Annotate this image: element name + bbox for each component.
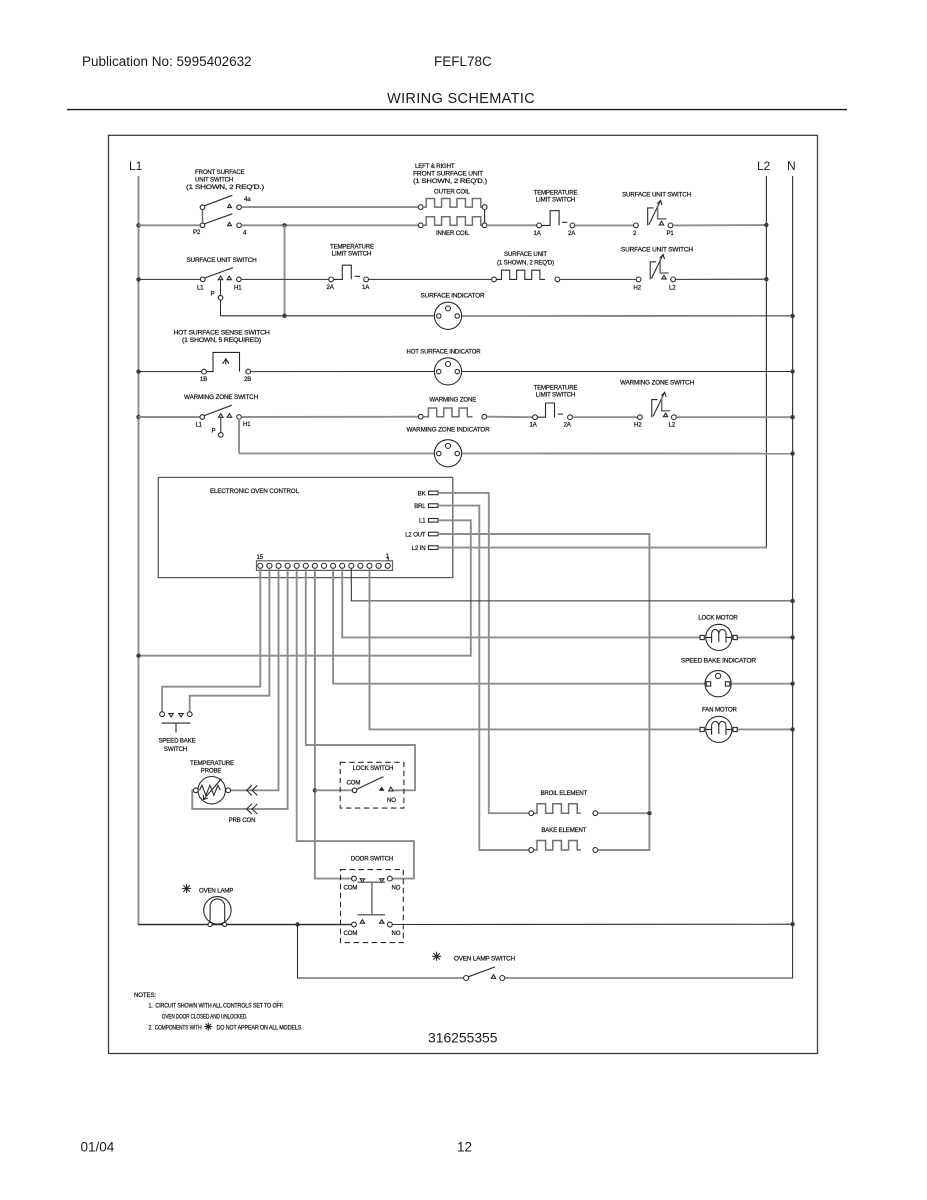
svg-text:TEMPERATURE: TEMPERATURE (330, 243, 374, 250)
svg-text:(1 SHOWN, 2 REQ'D.): (1 SHOWN, 2 REQ'D.) (413, 178, 487, 185)
svg-text:SURFACE UNIT: SURFACE UNIT (504, 251, 547, 258)
svg-text:NOTES:: NOTES: (134, 992, 156, 999)
svg-text:1A: 1A (362, 284, 370, 291)
svg-text:HOT SURFACE INDICATOR: HOT SURFACE INDICATOR (407, 348, 482, 355)
svg-text:L1: L1 (129, 159, 143, 173)
svg-text:L2: L2 (669, 285, 676, 292)
svg-text:OUTER COIL: OUTER COIL (434, 188, 471, 195)
svg-text:SPEED BAKE: SPEED BAKE (158, 738, 195, 745)
svg-text:SURFACE UNIT SWITCH: SURFACE UNIT SWITCH (622, 191, 691, 198)
svg-text:2. COMPONENTS WITH: 2. COMPONENTS WITH (149, 1025, 202, 1032)
svg-text:P2: P2 (193, 229, 201, 236)
svg-text:WARMING ZONE SWITCH: WARMING ZONE SWITCH (184, 394, 258, 401)
svg-text:N: N (787, 159, 796, 173)
svg-text:L1: L1 (196, 422, 203, 429)
svg-text:OVEN LAMP SWITCH: OVEN LAMP SWITCH (454, 956, 515, 963)
svg-text:316255355: 316255355 (428, 1031, 498, 1047)
svg-text:SURFACE UNIT SWITCH: SURFACE UNIT SWITCH (621, 246, 693, 253)
svg-text:BK: BK (418, 490, 426, 497)
svg-text:DO NOT APPEAR ON ALL MODELS.: DO NOT APPEAR ON ALL MODELS. (217, 1025, 303, 1032)
svg-text:H1: H1 (243, 421, 251, 428)
svg-text:1A: 1A (530, 422, 538, 429)
svg-text:LIMIT SWITCH: LIMIT SWITCH (332, 251, 371, 258)
svg-text:2A: 2A (568, 230, 576, 237)
svg-text:2: 2 (633, 230, 637, 237)
svg-text:L2 IN: L2 IN (412, 545, 426, 552)
svg-text:15: 15 (257, 554, 264, 561)
svg-text:DOOR SWITCH: DOOR SWITCH (351, 855, 393, 862)
svg-text:2A: 2A (564, 422, 572, 429)
svg-text:FEFL78C: FEFL78C (434, 54, 492, 69)
svg-text:LOCK MOTOR: LOCK MOTOR (698, 615, 738, 622)
svg-text:Publication No: 5995402632: Publication No: 5995402632 (82, 54, 252, 69)
svg-text:LOCK SWITCH: LOCK SWITCH (353, 765, 394, 772)
svg-text:L2: L2 (669, 422, 676, 429)
svg-text:LIMIT SWITCH: LIMIT SWITCH (536, 197, 575, 204)
svg-text:NO: NO (392, 930, 401, 937)
svg-text:PRB CON: PRB CON (229, 817, 256, 824)
svg-text:12: 12 (457, 1140, 472, 1155)
svg-text:4: 4 (243, 230, 247, 237)
svg-text:P: P (211, 291, 215, 298)
svg-text:L1: L1 (197, 285, 204, 292)
svg-text:01/04: 01/04 (81, 1140, 115, 1155)
svg-text:1A: 1A (534, 230, 542, 237)
svg-text:FAN MOTOR: FAN MOTOR (702, 707, 738, 714)
svg-text:4a: 4a (244, 196, 251, 203)
svg-text:2A: 2A (327, 284, 335, 291)
svg-text:BRL: BRL (414, 503, 426, 510)
svg-text:TEMPERATURE: TEMPERATURE (534, 384, 578, 391)
svg-text:1: 1 (386, 553, 390, 560)
svg-text:COM: COM (344, 884, 358, 891)
svg-text:ELECTRONIC OVEN CONTROL: ELECTRONIC OVEN CONTROL (210, 488, 300, 495)
svg-text:TEMPERATURE: TEMPERATURE (534, 189, 578, 196)
svg-text:1B: 1B (200, 376, 207, 383)
svg-text:L1: L1 (419, 518, 426, 525)
svg-text:SPEED BAKE INDICATOR: SPEED BAKE INDICATOR (681, 658, 757, 665)
svg-text:WARMING ZONE SWITCH: WARMING ZONE SWITCH (620, 380, 694, 387)
svg-text:FRONT SURFACE UNIT: FRONT SURFACE UNIT (413, 171, 483, 178)
svg-text:1. CIRCUIT SHOWN WITH ALL CON: 1. CIRCUIT SHOWN WITH ALL CONTROLS SET T… (149, 1003, 284, 1010)
svg-text:LEFT & RIGHT: LEFT & RIGHT (415, 163, 455, 170)
svg-text:WARMING ZONE: WARMING ZONE (429, 396, 476, 403)
svg-text:(1 SHOWN, 2 REQ'D.): (1 SHOWN, 2 REQ'D.) (186, 184, 264, 191)
svg-text:L2: L2 (757, 159, 771, 173)
svg-text:WARMING ZONE INDICATOR: WARMING ZONE INDICATOR (407, 426, 491, 433)
svg-text:(1 SHOWN, 2 REQ'D): (1 SHOWN, 2 REQ'D) (497, 259, 554, 266)
svg-text:H2: H2 (634, 422, 642, 429)
svg-text:OVEN DOOR CLOSED AND UNLOCKED.: OVEN DOOR CLOSED AND UNLOCKED. (162, 1013, 248, 1020)
svg-text:WIRING SCHEMATIC: WIRING SCHEMATIC (387, 91, 535, 107)
svg-text:P: P (212, 428, 216, 435)
svg-text:FRONT SURFACE: FRONT SURFACE (195, 169, 244, 176)
svg-text:NO: NO (387, 797, 396, 804)
svg-text:TEMPERATURE: TEMPERATURE (190, 760, 234, 767)
svg-text:HOT SURFACE SENSE SWITCH: HOT SURFACE SENSE SWITCH (174, 329, 270, 336)
svg-text:UNIT SWITCH: UNIT SWITCH (195, 177, 233, 184)
svg-text:2B: 2B (244, 376, 251, 383)
svg-text:H1: H1 (234, 285, 242, 292)
svg-text:PROBE: PROBE (201, 767, 222, 774)
svg-text:P1: P1 (667, 230, 675, 237)
svg-text:SURFACE INDICATOR: SURFACE INDICATOR (421, 292, 486, 299)
svg-text:LIMIT SWITCH: LIMIT SWITCH (536, 392, 575, 399)
svg-text:BROIL ELEMENT: BROIL ELEMENT (541, 790, 588, 797)
svg-text:SWITCH: SWITCH (164, 746, 187, 753)
svg-text:COM: COM (344, 930, 358, 937)
svg-text:INNER COIL: INNER COIL (436, 230, 470, 237)
svg-text:(1 SHOWN, 5 REQUIRED): (1 SHOWN, 5 REQUIRED) (182, 337, 261, 344)
svg-text:H2: H2 (633, 285, 641, 292)
svg-text:COM: COM (347, 779, 361, 786)
svg-text:NO: NO (392, 884, 401, 891)
svg-text:OVEN LAMP: OVEN LAMP (199, 888, 233, 895)
svg-text:L2 OUT: L2 OUT (405, 531, 426, 538)
svg-text:BAKE ELEMENT: BAKE ELEMENT (541, 827, 586, 834)
svg-text:SURFACE UNIT SWITCH: SURFACE UNIT SWITCH (187, 257, 257, 264)
